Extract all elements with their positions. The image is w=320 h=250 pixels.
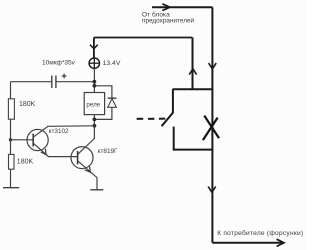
wire: left rail top segment xyxy=(10,82,12,99)
node: diode bottom junction xyxy=(93,118,97,122)
wire: to diode cathode xyxy=(94,86,112,98)
node: junction dot on left rail (Q1 base) xyxy=(9,138,12,141)
wire: Q1 base wire xyxy=(11,139,34,141)
ground (left) xyxy=(3,187,19,189)
svg-text:кт3102: кт3102 xyxy=(49,128,69,135)
arrow: bus down (lower) xyxy=(208,187,216,193)
contact upper terminal xyxy=(172,89,174,113)
power source symbol +13.4V xyxy=(89,58,99,68)
wire: Q1 collector to node xyxy=(33,126,94,137)
wire: feed line from fuse box (top) xyxy=(152,6,212,8)
node: collectors junction xyxy=(93,124,97,128)
relay contact bypass: bottom edge xyxy=(173,149,213,151)
wire: diode anode down and left xyxy=(94,107,112,119)
wire: bold horizontal to contact branch xyxy=(94,37,193,39)
wire: branch down to contact xyxy=(192,38,194,90)
wire: Q1 emitter to Q2 base xyxy=(33,143,77,156)
wire: left rail bottom segment xyxy=(10,169,12,188)
X cut mark on bus xyxy=(203,116,219,141)
wire: Q2 emitter down to ground xyxy=(78,161,97,190)
arrow: down into source xyxy=(90,45,98,49)
wire: bottom output to consumers xyxy=(212,242,283,244)
capacitor polarity plus xyxy=(62,74,67,79)
svg-text:10мкф*35v: 10мкф*35v xyxy=(42,60,76,67)
capacitor C1 10mkf*35v xyxy=(52,76,56,89)
svg-text:кт819Г: кт819Г xyxy=(98,148,118,155)
mechanical link (dashed) to relay xyxy=(137,118,166,120)
contact blade (open switch) xyxy=(162,112,174,126)
arrow: feed direction right xyxy=(162,4,169,11)
arrow: bus down (upper) xyxy=(209,63,217,69)
wire: main vertical bus xyxy=(211,7,213,243)
svg-text:К потребителе (форсунки): К потребителе (форсунки) xyxy=(217,229,303,237)
transistor Q2 kt819G xyxy=(71,147,93,169)
resistor R2 180K xyxy=(9,154,15,169)
transistor Q1 kt3102 xyxy=(27,129,48,150)
arrow: branch up xyxy=(189,69,196,75)
svg-text:180K: 180K xyxy=(17,159,34,166)
diode D1 (flyback) xyxy=(108,97,117,99)
contact lower terminal xyxy=(173,127,175,150)
wire: bold drop from feed line into source circle xyxy=(93,38,95,59)
arrow: Q1 emitter xyxy=(41,149,46,155)
svg-text:13.4V: 13.4V xyxy=(103,60,121,67)
wire: source to relay xyxy=(93,68,95,92)
svg-text:180K: 180K xyxy=(19,101,36,108)
arrow: Q2 emitter xyxy=(85,166,91,172)
ground (Q2 emitter) xyxy=(90,189,103,191)
wire: capacitor to center node xyxy=(56,81,95,83)
relay coil box xyxy=(84,93,104,115)
node: diode top junction xyxy=(93,84,97,88)
svg-text:реле: реле xyxy=(86,102,100,109)
svg-text:предохранителей: предохранителей xyxy=(142,16,195,24)
relay contact bypass: top edge xyxy=(173,88,213,90)
wire: Q2 collector up to node xyxy=(78,126,95,155)
node: capacitor junction xyxy=(93,80,97,84)
wire: relay bottom to collector node xyxy=(93,115,95,126)
resistor R1 180K xyxy=(8,99,14,119)
wire: left rail middle segment xyxy=(10,119,12,154)
arrow: output right xyxy=(277,239,284,246)
wire: top-left horizontal from left rail to capacitor xyxy=(11,81,52,83)
